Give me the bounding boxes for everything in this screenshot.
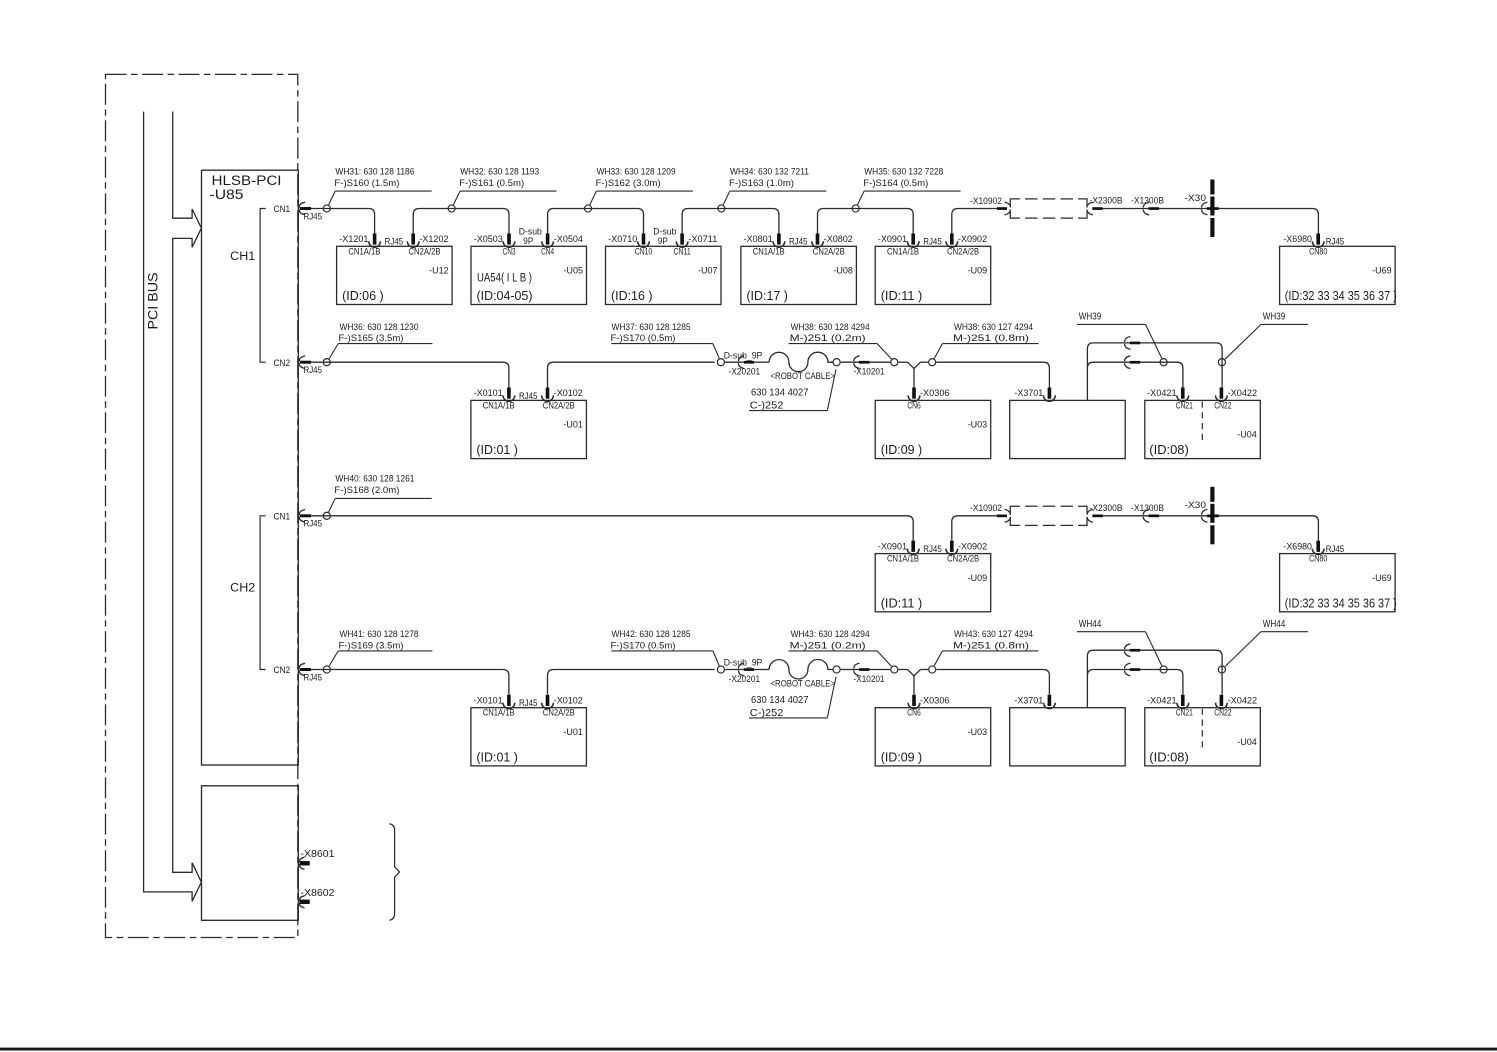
svg-text:WH40: 630 128 1261: WH40: 630 128 1261 bbox=[335, 473, 414, 484]
svg-text:WH44: WH44 bbox=[1079, 619, 1102, 630]
svg-text:CN1A/1B: CN1A/1B bbox=[483, 707, 515, 718]
svg-text:F-)S169 (3.5m): F-)S169 (3.5m) bbox=[339, 640, 404, 651]
svg-text:RJ45: RJ45 bbox=[519, 698, 538, 708]
svg-text:-U69: -U69 bbox=[1372, 265, 1392, 276]
svg-text:WH42: 630 128 1285: WH42: 630 128 1285 bbox=[612, 628, 691, 639]
svg-text:WH38: 630 127 4294: WH38: 630 127 4294 bbox=[954, 321, 1033, 332]
svg-text:<ROBOT CABLE>: <ROBOT CABLE> bbox=[771, 370, 836, 381]
svg-text:CN1: CN1 bbox=[274, 511, 291, 522]
svg-text:CN1A/1B: CN1A/1B bbox=[753, 245, 785, 256]
svg-text:CN1A/1B: CN1A/1B bbox=[483, 399, 515, 410]
svg-text:-U05: -U05 bbox=[564, 265, 584, 276]
svg-text:(ID:09 ): (ID:09 ) bbox=[881, 750, 923, 765]
svg-text:-X0102: -X0102 bbox=[554, 694, 583, 705]
svg-text:D-sub: D-sub bbox=[519, 227, 542, 237]
svg-text:-U04: -U04 bbox=[1237, 429, 1257, 440]
svg-text:D-sub_9P: D-sub_9P bbox=[724, 658, 763, 668]
svg-text:-X0711: -X0711 bbox=[688, 233, 717, 244]
svg-text:-X0421: -X0421 bbox=[1147, 694, 1177, 705]
svg-text:RJ45: RJ45 bbox=[789, 237, 808, 247]
svg-text:RJ45: RJ45 bbox=[304, 365, 323, 375]
svg-text:-U85: -U85 bbox=[210, 187, 244, 202]
svg-text:(ID:08): (ID:08) bbox=[1149, 442, 1189, 457]
svg-text:9P: 9P bbox=[523, 236, 533, 246]
svg-text:D-sub_9P: D-sub_9P bbox=[724, 350, 763, 360]
svg-text:RJ45: RJ45 bbox=[923, 237, 942, 247]
svg-text:CH2: CH2 bbox=[230, 581, 255, 595]
svg-text:F-)S162 (3.0m): F-)S162 (3.0m) bbox=[596, 177, 661, 188]
svg-text:-X8601: -X8601 bbox=[301, 849, 335, 860]
svg-text:(ID:08): (ID:08) bbox=[1149, 750, 1189, 765]
svg-text:CN22: CN22 bbox=[1214, 399, 1231, 410]
svg-text:(ID:01 ): (ID:01 ) bbox=[476, 750, 518, 765]
svg-text:-X2300B: -X2300B bbox=[1090, 502, 1123, 513]
svg-text:F-)S163 (1.0m): F-)S163 (1.0m) bbox=[729, 177, 794, 188]
svg-text:RJ45: RJ45 bbox=[1326, 237, 1345, 247]
svg-text:WH34: 630 132 7211: WH34: 630 132 7211 bbox=[730, 165, 809, 176]
svg-text:-X3701: -X3701 bbox=[1014, 694, 1043, 705]
svg-text:-X0901: -X0901 bbox=[878, 233, 907, 244]
svg-text:UA54( I L B ): UA54( I L B ) bbox=[477, 270, 532, 284]
svg-text:CN3: CN3 bbox=[503, 245, 516, 256]
svg-text:-X10902: -X10902 bbox=[970, 502, 1002, 513]
svg-text:-U03: -U03 bbox=[968, 726, 988, 737]
svg-text:CN2A/2B: CN2A/2B bbox=[947, 553, 979, 564]
svg-text:CN2A/2B: CN2A/2B bbox=[947, 245, 979, 256]
svg-text:-X0710: -X0710 bbox=[608, 233, 637, 244]
svg-text:-U07: -U07 bbox=[698, 265, 718, 276]
svg-text:-X1201: -X1201 bbox=[339, 233, 368, 244]
svg-text:-X6980: -X6980 bbox=[1283, 233, 1312, 244]
svg-text:CN10: CN10 bbox=[635, 245, 652, 256]
svg-text:-U04: -U04 bbox=[1237, 736, 1257, 747]
svg-text:WH43: 630 127 4294: WH43: 630 127 4294 bbox=[954, 628, 1033, 639]
svg-text:D-sub: D-sub bbox=[653, 227, 676, 237]
svg-text:-U09: -U09 bbox=[968, 572, 988, 583]
svg-text:PCI BUS: PCI BUS bbox=[146, 273, 161, 330]
svg-text:-X10201: -X10201 bbox=[854, 673, 885, 684]
svg-text:-X0801: -X0801 bbox=[744, 233, 773, 244]
svg-text:(ID:06 ): (ID:06 ) bbox=[342, 288, 384, 303]
svg-text:RJ45: RJ45 bbox=[923, 544, 942, 554]
svg-text:RJ45: RJ45 bbox=[519, 391, 538, 401]
svg-text:630 134 4027: 630 134 4027 bbox=[751, 388, 809, 399]
svg-text:-X0101: -X0101 bbox=[474, 694, 503, 705]
svg-text:CN2: CN2 bbox=[274, 664, 291, 675]
svg-text:630 134 4027: 630 134 4027 bbox=[751, 695, 809, 706]
svg-text:CN2A/2B: CN2A/2B bbox=[813, 245, 845, 256]
svg-text:M-)251 (0.2m): M-)251 (0.2m) bbox=[790, 332, 866, 343]
svg-text:-X6980: -X6980 bbox=[1283, 540, 1312, 551]
svg-text:-X0422: -X0422 bbox=[1228, 387, 1258, 398]
svg-text:(ID:32 33 34 35 36 37 ): (ID:32 33 34 35 36 37 ) bbox=[1285, 595, 1397, 610]
svg-text:CN1A/1B: CN1A/1B bbox=[887, 553, 919, 564]
svg-text:F-)S161 (0.5m): F-)S161 (0.5m) bbox=[459, 177, 524, 188]
svg-text:CN6: CN6 bbox=[907, 707, 921, 718]
svg-text:-X10201: -X10201 bbox=[854, 366, 885, 377]
svg-text:-X0901: -X0901 bbox=[878, 540, 907, 551]
svg-text:RJ45: RJ45 bbox=[385, 237, 404, 247]
svg-text:CN6: CN6 bbox=[907, 399, 921, 410]
svg-text:(ID:09 ): (ID:09 ) bbox=[881, 442, 923, 457]
svg-text:CH1: CH1 bbox=[230, 249, 255, 263]
svg-text:(ID:04-05): (ID:04-05) bbox=[477, 288, 533, 303]
svg-text:-X1300B: -X1300B bbox=[1131, 502, 1164, 513]
svg-text:-X3701: -X3701 bbox=[1014, 387, 1043, 398]
svg-text:F-)S165 (3.5m): F-)S165 (3.5m) bbox=[339, 332, 404, 343]
svg-text:C-)252: C-)252 bbox=[750, 708, 784, 719]
svg-text:CN2A/2B: CN2A/2B bbox=[543, 399, 575, 410]
svg-text:F-)S168 (2.0m): F-)S168 (2.0m) bbox=[334, 484, 399, 495]
svg-text:F-)S170 (0.5m): F-)S170 (0.5m) bbox=[611, 640, 676, 651]
svg-text:-X20201: -X20201 bbox=[729, 366, 761, 377]
svg-text:-U03: -U03 bbox=[968, 419, 988, 430]
svg-text:WH39: WH39 bbox=[1079, 312, 1102, 323]
svg-text:CN21: CN21 bbox=[1176, 399, 1193, 410]
svg-text:(ID:32 33 34 35 36 37 ): (ID:32 33 34 35 36 37 ) bbox=[1285, 288, 1397, 303]
svg-text:-U01: -U01 bbox=[563, 726, 583, 737]
svg-text:CN80: CN80 bbox=[1309, 553, 1327, 564]
svg-text:-X0421: -X0421 bbox=[1147, 387, 1177, 398]
svg-text:-X1300B: -X1300B bbox=[1131, 195, 1164, 206]
svg-text:RJ45: RJ45 bbox=[304, 211, 323, 221]
svg-text:HLSB-PCI: HLSB-PCI bbox=[212, 173, 282, 188]
svg-text:-X2300B: -X2300B bbox=[1090, 195, 1123, 206]
svg-text:-X20201: -X20201 bbox=[729, 673, 761, 684]
svg-text:CN2A/2B: CN2A/2B bbox=[409, 245, 441, 256]
svg-text:(ID:11 ): (ID:11 ) bbox=[881, 288, 923, 303]
svg-text:F-)S164 (0.5m): F-)S164 (0.5m) bbox=[863, 177, 928, 188]
svg-text:CN22: CN22 bbox=[1214, 707, 1231, 718]
svg-text:M-)251 (0.8m): M-)251 (0.8m) bbox=[953, 640, 1029, 651]
svg-text:M-)251 (0.8m): M-)251 (0.8m) bbox=[953, 332, 1029, 343]
svg-text:RJ45: RJ45 bbox=[304, 672, 323, 682]
svg-text:RJ45: RJ45 bbox=[304, 519, 323, 529]
svg-text:9P: 9P bbox=[658, 236, 668, 246]
svg-text:WH38: 630 128 4294: WH38: 630 128 4294 bbox=[791, 321, 870, 332]
svg-text:-X30: -X30 bbox=[1185, 499, 1207, 510]
svg-text:WH32: 630 128 1193: WH32: 630 128 1193 bbox=[460, 165, 539, 176]
svg-text:CN1A/1B: CN1A/1B bbox=[348, 245, 380, 256]
svg-text:-U69: -U69 bbox=[1372, 572, 1392, 583]
svg-text:-U09: -U09 bbox=[968, 265, 988, 276]
svg-text:(ID:17 ): (ID:17 ) bbox=[746, 288, 788, 303]
svg-text:CN80: CN80 bbox=[1309, 245, 1327, 256]
svg-text:-U08: -U08 bbox=[833, 265, 853, 276]
svg-text:M-)251 (0.2m): M-)251 (0.2m) bbox=[790, 640, 866, 651]
svg-text:-X1202: -X1202 bbox=[419, 233, 448, 244]
svg-text:(ID:01 ): (ID:01 ) bbox=[476, 442, 518, 457]
svg-text:-U12: -U12 bbox=[429, 265, 449, 276]
svg-text:WH33: 630 128 1209: WH33: 630 128 1209 bbox=[597, 165, 676, 176]
svg-text:-X0504: -X0504 bbox=[554, 233, 583, 244]
svg-text:CN2: CN2 bbox=[274, 357, 291, 368]
svg-text:CN1A/1B: CN1A/1B bbox=[887, 245, 919, 256]
svg-text:-X0422: -X0422 bbox=[1228, 694, 1258, 705]
svg-text:-X30: -X30 bbox=[1185, 192, 1207, 203]
svg-text:WH39: WH39 bbox=[1263, 312, 1286, 323]
svg-text:-X0802: -X0802 bbox=[824, 233, 853, 244]
svg-text:CN11: CN11 bbox=[673, 245, 690, 256]
svg-text:-X8602: -X8602 bbox=[301, 888, 335, 899]
svg-text:C-)252: C-)252 bbox=[750, 401, 784, 412]
svg-text:F-)S170 (0.5m): F-)S170 (0.5m) bbox=[611, 332, 676, 343]
svg-text:-X0902: -X0902 bbox=[958, 233, 987, 244]
svg-text:-X0306: -X0306 bbox=[920, 387, 950, 398]
svg-text:WH35: 630 132 7228: WH35: 630 132 7228 bbox=[864, 165, 943, 176]
svg-text:WH44: WH44 bbox=[1263, 619, 1286, 630]
svg-text:-X0306: -X0306 bbox=[920, 694, 950, 705]
svg-text:(ID:11 ): (ID:11 ) bbox=[881, 595, 923, 610]
svg-text:RJ45: RJ45 bbox=[1326, 544, 1345, 554]
svg-text:F-)S160 (1.5m): F-)S160 (1.5m) bbox=[334, 177, 399, 188]
svg-text:-X0503: -X0503 bbox=[474, 233, 503, 244]
svg-text:CN21: CN21 bbox=[1176, 707, 1193, 718]
svg-text:WH36: 630 128 1230: WH36: 630 128 1230 bbox=[340, 321, 419, 332]
svg-text:-U01: -U01 bbox=[563, 419, 583, 430]
svg-text:CN1: CN1 bbox=[274, 203, 291, 214]
svg-text:WH41: 630 128 1278: WH41: 630 128 1278 bbox=[340, 628, 419, 639]
svg-text:<ROBOT CABLE>: <ROBOT CABLE> bbox=[771, 678, 836, 689]
svg-text:WH31: 630 128 1186: WH31: 630 128 1186 bbox=[335, 165, 414, 176]
svg-text:-X10902: -X10902 bbox=[970, 195, 1002, 206]
svg-text:CN2A/2B: CN2A/2B bbox=[543, 707, 575, 718]
svg-text:-X0902: -X0902 bbox=[958, 540, 987, 551]
svg-text:-X0101: -X0101 bbox=[474, 387, 503, 398]
svg-text:WH37: 630 128 1285: WH37: 630 128 1285 bbox=[612, 321, 691, 332]
svg-text:(ID:16 ): (ID:16 ) bbox=[611, 288, 653, 303]
svg-text:WH43: 630 128 4294: WH43: 630 128 4294 bbox=[791, 628, 870, 639]
svg-text:-X0102: -X0102 bbox=[554, 387, 583, 398]
svg-text:CN4: CN4 bbox=[541, 245, 554, 256]
